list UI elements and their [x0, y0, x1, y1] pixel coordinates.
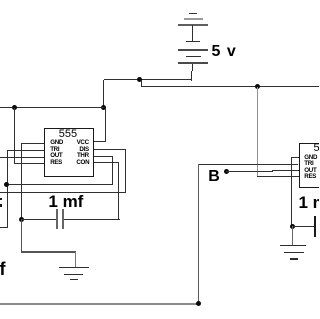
label 555 U1: [59, 130, 77, 139]
wire x75 down to ground: [75, 252, 76, 268]
wire battery to bus: [192, 64, 193, 71]
label 555 U2 partial: [314, 144, 320, 153]
wire stub down to y86 bus: [141, 80, 142, 86]
wire pin THR stub U1: [94, 156, 113, 157]
wire +5V rail y80: [104, 79, 193, 80]
wire vertical x7.5 TRI-THR: [7, 150, 8, 228]
node junction cap C2: [290, 224, 295, 229]
node B: [224, 169, 229, 174]
battery B1 5V: [189, 13, 198, 14]
node junction bottom bus: [196, 301, 201, 306]
wire +5V bus y86 to right edge: [141, 86, 319, 87]
node junction x103 y107: [101, 105, 106, 110]
component cut at left edge: [0, 198, 2, 200]
wire to ground x21: [21, 219, 22, 252]
pin labels U2 left: [304, 155, 317, 181]
wire vertical x112.6 THR: [112, 156, 113, 185]
wire RES U2 y176.4: [257, 176, 299, 177]
ground GND2: [280, 245, 306, 246]
wire pin GND U1: [21, 143, 44, 144]
wire y252: [21, 251, 76, 252]
wire TRI U2 y164.4: [198, 164, 298, 165]
capacitor C2 (cut at right edge): [314, 216, 316, 237]
label 5 v: [212, 44, 236, 60]
wire OUT U2 left part: [226, 171, 272, 172]
wire OUT U2 step: [272, 170, 273, 172]
wire CON to cap C1 y219.4: [64, 219, 120, 220]
label B: [208, 169, 220, 185]
wire jog down to VCC: [105, 108, 106, 142]
wire DIS y192 to left edge: [0, 192, 126, 193]
wire vertical x104: [103, 80, 104, 108]
wire THR y184.6: [7, 184, 113, 185]
wire pin DIS stub U1: [94, 149, 125, 150]
node junction on rail: [137, 77, 142, 82]
op IC U1 555 box: [44, 128, 94, 177]
wire pin CON stub U1: [94, 162, 119, 163]
pin labels U1 right: [76, 140, 88, 167]
wire cap C1 left lead: [21, 219, 56, 220]
wire vertical x125 DIS: [125, 149, 126, 193]
node junction bus x257: [255, 84, 260, 89]
wire exit left y227: [0, 227, 8, 228]
wire vertical x14 to RES: [14, 108, 15, 165]
node junction TRI-THR: [4, 182, 9, 187]
wire cap C2 lead: [292, 226, 315, 227]
wire pin RES U1: [14, 163, 44, 164]
wire vertical x291.8 GND U2: [291, 157, 292, 226]
op IC U2 555 box (cut at right): [299, 143, 320, 188]
capacitor C1: [56, 209, 58, 229]
wire pin VCC stub: [94, 141, 106, 142]
wire pin TRI U1: [8, 150, 44, 151]
label 1 mf C2 (cut): [299, 194, 320, 211]
wire vertical x118.8 CON: [118, 162, 119, 220]
wire OUT U2 right part: [272, 170, 299, 171]
wire pin OUT U1 to left edge: [0, 157, 44, 158]
node junction cap C1 left: [19, 217, 24, 222]
wire y107 to left edge: [0, 107, 104, 108]
label 1 mf C1: [48, 193, 83, 210]
wire vertical x21 GND down: [21, 143, 22, 220]
ground GND1: [59, 267, 89, 268]
node junction x14 y107: [12, 105, 17, 110]
wire bottom bus y303.6 gray: [0, 303, 199, 305]
pin labels U1 left: [50, 140, 63, 167]
wire x292 down to ground: [292, 226, 293, 245]
wire vertical x257 gray: [257, 87, 259, 177]
wire pin GND U2 stub: [291, 157, 298, 158]
wire vertical x198.6: [198, 164, 199, 303]
label f (cut 1 mf): [0, 261, 6, 278]
